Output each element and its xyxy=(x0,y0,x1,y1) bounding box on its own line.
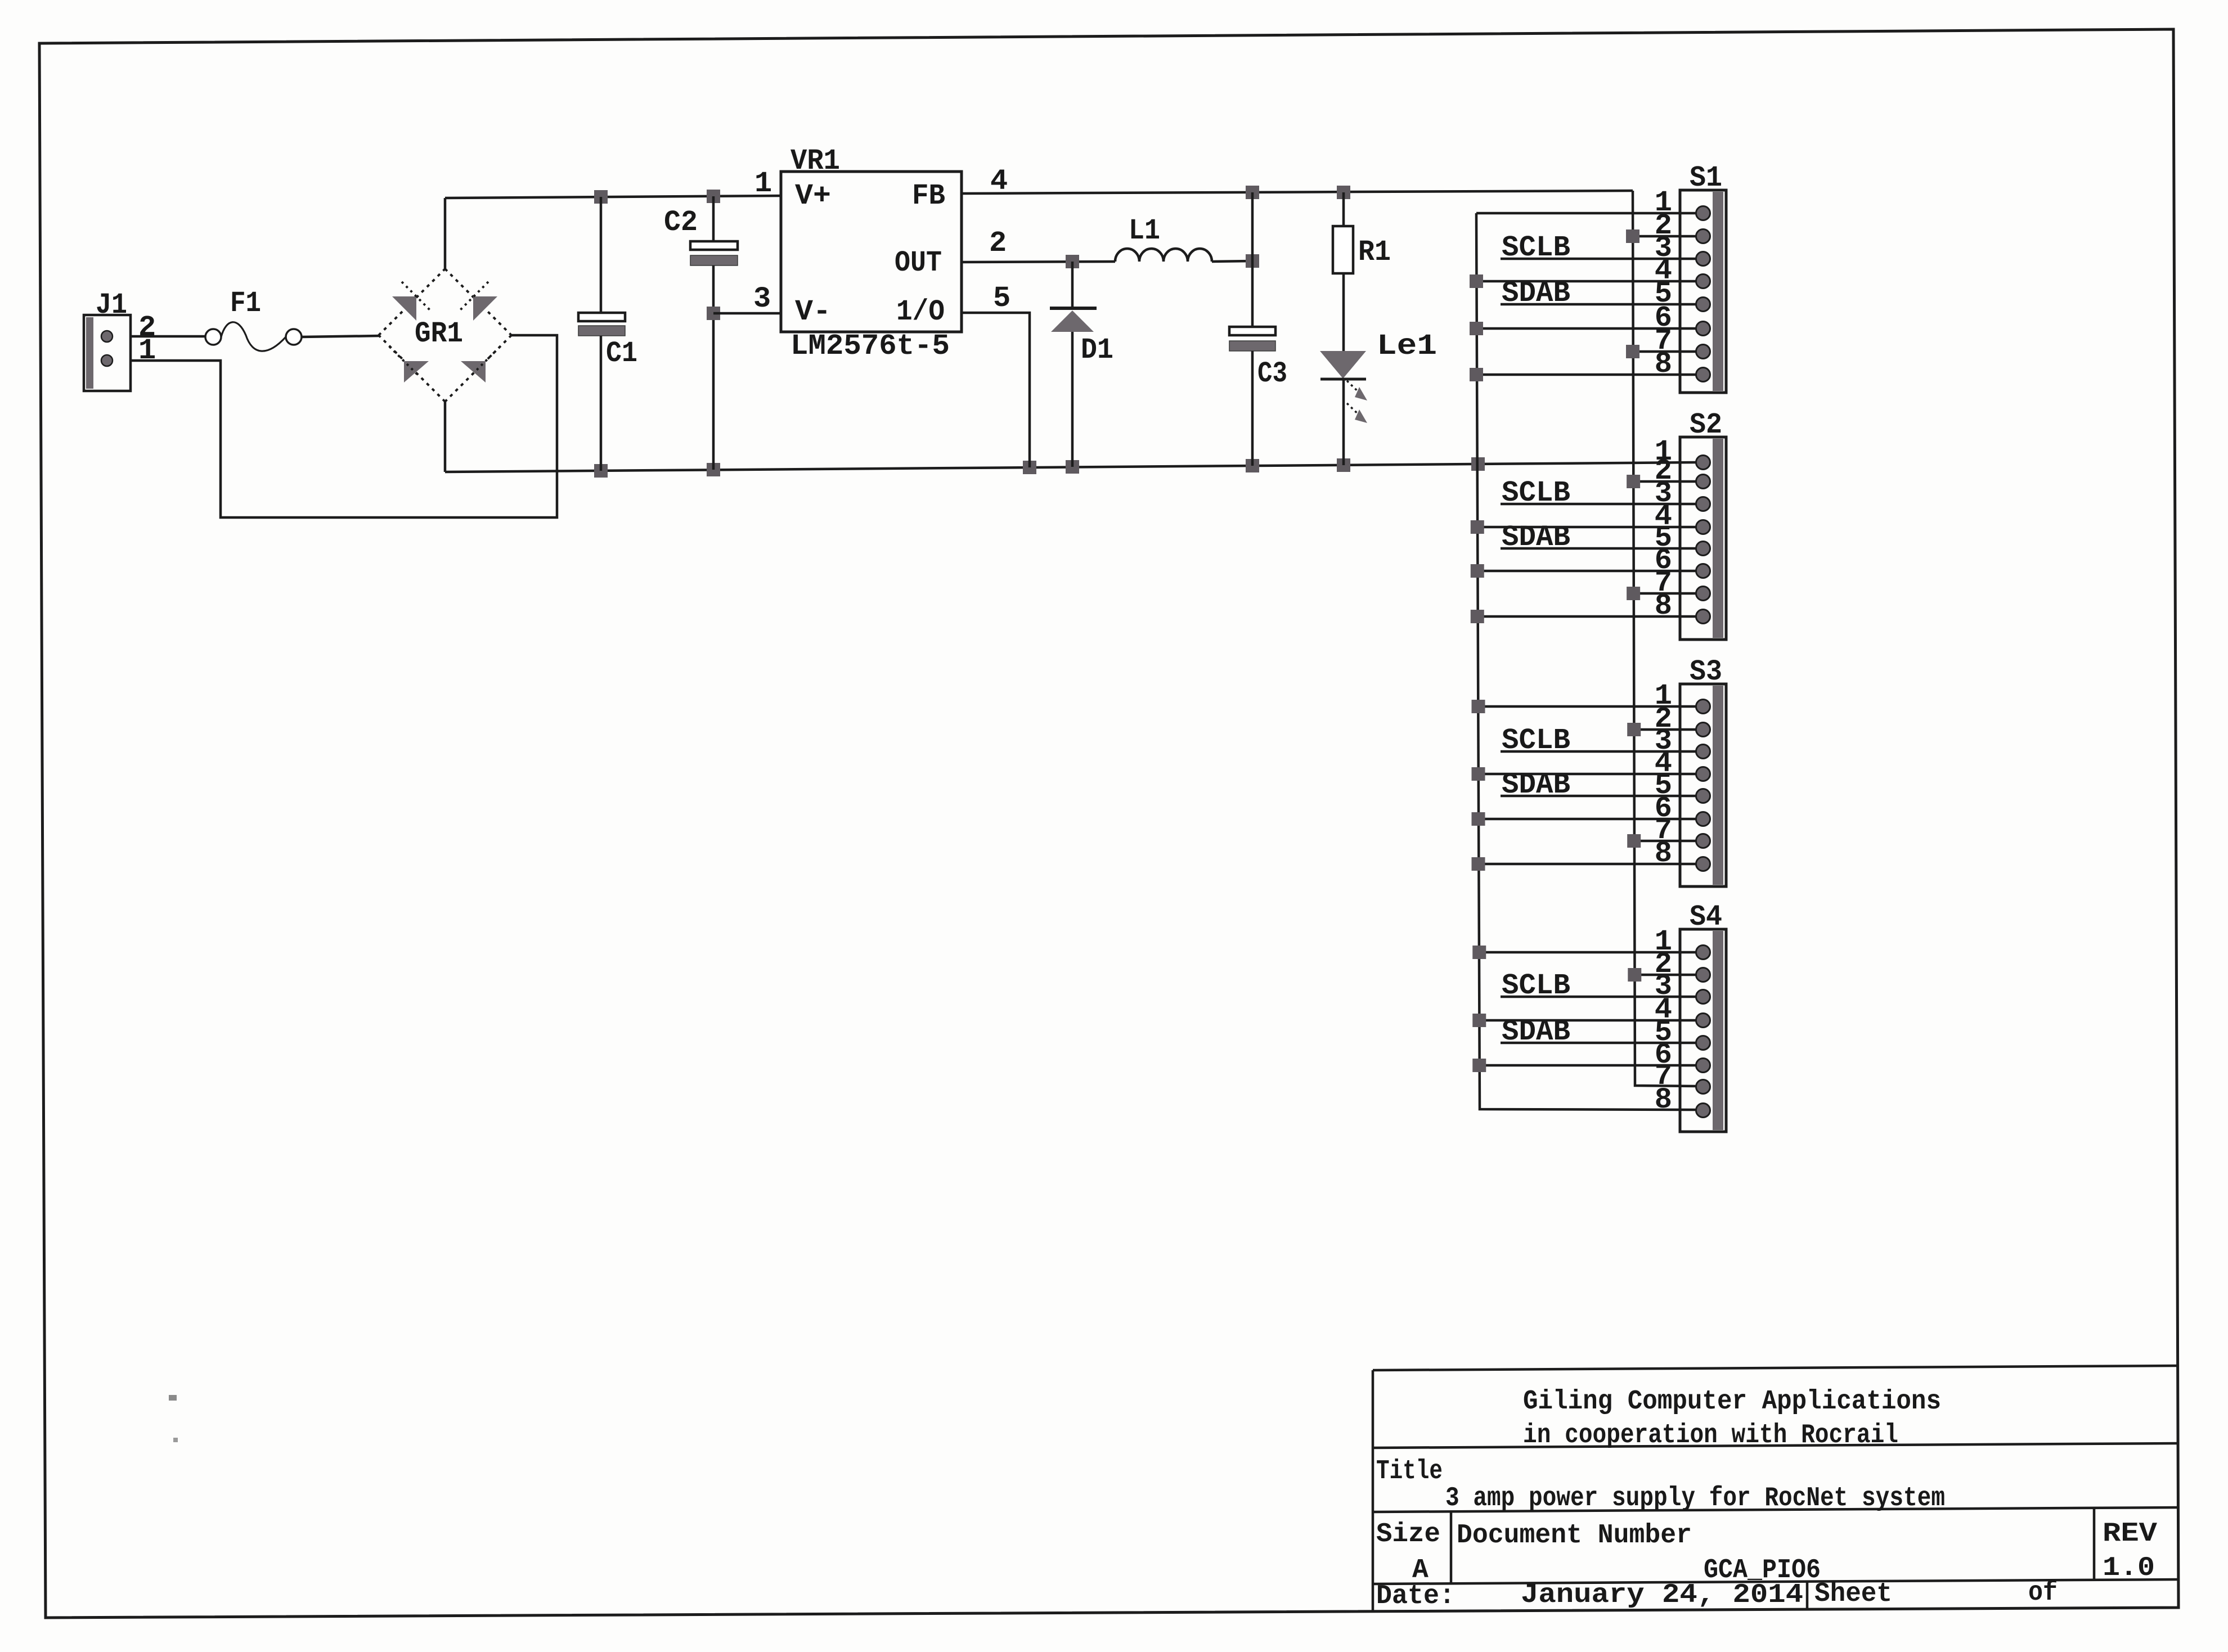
svg-text:Sheet: Sheet xyxy=(1814,1579,1892,1609)
connector S1 pin 7 contact xyxy=(1696,345,1710,359)
svg-text:January 24, 2014: January 24, 2014 xyxy=(1521,1580,1803,1610)
connector S4 pin 8 contact xyxy=(1696,1104,1710,1118)
junction GND bus at S3 pin8 xyxy=(1472,857,1485,871)
connector S2 pin 2 contact xyxy=(1696,475,1710,489)
junction bottom rail at Le1 xyxy=(1337,458,1350,472)
wire S2 pin4 from GND bus xyxy=(1477,526,1697,529)
svg-text:C2: C2 xyxy=(664,206,698,239)
svg-text:1/O: 1/O xyxy=(896,295,945,328)
connector S4 pin 2 contact xyxy=(1696,968,1710,982)
diode D1 triangle xyxy=(1051,310,1094,332)
junction GND bus at S1 pin4 xyxy=(1470,274,1483,288)
wire +5V bus (FB rail corner down to S4 pin7) xyxy=(1633,191,1697,1086)
svg-text:8: 8 xyxy=(1655,1083,1672,1117)
title block divider under title xyxy=(1373,1507,2178,1512)
svg-text:R1: R1 xyxy=(1358,236,1391,269)
wire S3 pin7 from +5V bus xyxy=(1634,840,1697,843)
svg-text:1.0: 1.0 xyxy=(2103,1553,2155,1583)
wire FB rail (VR1 FB to +5V bus corner) xyxy=(962,191,1633,193)
junction GND bus at S1 pin8 xyxy=(1470,368,1483,381)
J1 pin 1 number label xyxy=(138,334,156,367)
inductor L1 label xyxy=(1129,214,1160,247)
connector S3 body xyxy=(1680,684,1726,886)
wire S3 pin2 from +5V bus xyxy=(1634,728,1697,731)
connector S3 pin 2 contact xyxy=(1696,723,1710,737)
wire VR1 OUT to L1 xyxy=(962,262,1115,262)
svg-text:SCLB: SCLB xyxy=(1502,476,1570,510)
connector S1 pin 8 number xyxy=(1655,348,1672,381)
wire net SDAB to S4 pin5 xyxy=(1501,1042,1697,1045)
junction GND bus at S1 pin6 xyxy=(1470,322,1483,335)
connector S3 pin 3 contact xyxy=(1696,745,1710,759)
wire net SDAB to S2 pin5 xyxy=(1501,547,1697,550)
bridge GR1 diode top-right xyxy=(459,282,497,321)
diode D1 top lead xyxy=(1071,262,1074,310)
svg-text:L1: L1 xyxy=(1129,214,1160,247)
wire net SDAB to S1 pin5 xyxy=(1501,303,1697,306)
net label SDAB at S1 xyxy=(1502,277,1570,310)
connector S2 pin 6 contact xyxy=(1696,564,1710,578)
connector J1 label xyxy=(96,289,127,322)
connector S4 pin 2 number xyxy=(1655,948,1672,981)
connector S1 pin 2 number xyxy=(1655,209,1672,242)
fuse F1 element xyxy=(221,322,286,351)
junction OUT wire at D1 xyxy=(1066,255,1079,268)
wire GR1 minus output to bottom rail xyxy=(444,402,447,472)
bridge GR1 diode top-left xyxy=(392,282,431,321)
regulator VR1 box xyxy=(781,172,962,332)
connector S4 pin 3 contact xyxy=(1696,990,1710,1004)
svg-text:Size: Size xyxy=(1376,1519,1440,1550)
connector S2 pin 7 number xyxy=(1655,566,1672,600)
connector S1 pin 6 number xyxy=(1655,301,1672,335)
connector S2 pin 5 contact xyxy=(1696,542,1710,556)
VR1 pin 4 number label xyxy=(990,165,1008,198)
svg-text:C3: C3 xyxy=(1257,357,1287,390)
wire top rail Vin (GR1 to VR1 V+) xyxy=(445,196,781,198)
title block date value xyxy=(1521,1580,1803,1610)
connector S1 pin 3 contact xyxy=(1696,252,1710,266)
regulator VR1 value label LM2576t-5 xyxy=(790,330,950,363)
connector S2 pin 4 contact xyxy=(1696,520,1710,534)
bridge GR1 diamond edge top-left xyxy=(379,269,445,335)
junction output node at L1 xyxy=(1246,254,1259,268)
connector S3 pin 6 contact xyxy=(1696,812,1710,826)
capacitor C3 bottom plate xyxy=(1229,341,1275,351)
wire net SCLB to S1 pin3 xyxy=(1501,258,1697,260)
wire J1 pin1 loop to GR1 AC input xyxy=(129,335,557,517)
connector S3 pin 4 number xyxy=(1655,747,1672,780)
fuse F1 right terminal xyxy=(286,329,302,345)
connector S1 pin 8 contact xyxy=(1696,368,1710,382)
svg-text:V-: V- xyxy=(795,295,831,328)
connector S2 pin 8 contact xyxy=(1696,610,1710,624)
title block outer frame xyxy=(1373,1366,2178,1612)
wire S1 pin4 from GND bus xyxy=(1476,280,1697,283)
junction bottom rail at D1 xyxy=(1066,460,1079,474)
svg-text:F1: F1 xyxy=(230,287,261,320)
title block Size label xyxy=(1376,1519,1440,1550)
resistor R1 top lead xyxy=(1342,192,1345,226)
connector S3 pin 5 number xyxy=(1655,769,1672,802)
title block rev value 1.0 xyxy=(2103,1553,2155,1583)
resistor R1 label xyxy=(1358,236,1391,269)
junction C2 at VR1 V- wire xyxy=(707,307,720,320)
capacitor C1 bottom lead xyxy=(600,336,603,471)
connector J1 body xyxy=(84,315,131,391)
title block company line 2 xyxy=(1523,1420,1898,1451)
svg-text:of: of xyxy=(2028,1578,2058,1608)
junction +5V bus at S3 pin7 xyxy=(1627,834,1641,848)
wire S2 pin2 from +5V bus xyxy=(1633,480,1697,483)
svg-text:SCLB: SCLB xyxy=(1502,724,1570,757)
connector S2 pin 5 number xyxy=(1655,521,1672,555)
LED Le1 bottom lead xyxy=(1342,379,1345,465)
capacitor C1 bottom plate xyxy=(578,326,625,336)
connector S2 body xyxy=(1680,437,1726,640)
wire S1 pin6 from GND bus xyxy=(1476,327,1697,330)
svg-text:S2: S2 xyxy=(1690,408,1722,442)
connector S4 pin 7 contact xyxy=(1696,1080,1710,1094)
title block REV label xyxy=(2103,1519,2157,1549)
junction +5V bus at S3 pin2 xyxy=(1627,723,1641,736)
fuse F1 left terminal xyxy=(205,329,221,345)
connector S1 pin 1 contact xyxy=(1696,206,1710,220)
junction FB rail at C3 column xyxy=(1246,186,1259,199)
junction FB rail at R1 xyxy=(1337,186,1350,199)
wire S3 pin4 from GND bus xyxy=(1479,773,1697,776)
wire VR1 I/O down to GND rail xyxy=(962,313,1030,467)
title block REV box divider xyxy=(2093,1508,2096,1580)
net label SCLB at S2 xyxy=(1502,476,1570,510)
junction bottom rail at GND bus xyxy=(1471,457,1485,471)
connector S2 pin 3 number xyxy=(1655,477,1672,510)
svg-text:VR1: VR1 xyxy=(790,145,840,178)
connector S1 pin 2 contact xyxy=(1696,229,1710,244)
wire S1 pin1 from GND bus corner xyxy=(1476,212,1697,215)
svg-text:SCLB: SCLB xyxy=(1502,969,1570,1002)
connector S1 pin 3 number xyxy=(1655,232,1672,265)
wire FB rail down to output node xyxy=(1251,192,1254,261)
VR1 pin 1 number label xyxy=(754,167,772,200)
capacitor C3 top plate xyxy=(1229,327,1275,335)
svg-text:Giling Computer Applications: Giling Computer Applications xyxy=(1523,1387,1941,1417)
connector S4 body xyxy=(1680,929,1726,1132)
VR1 pin 5 number label xyxy=(993,282,1010,315)
bridge GR1 diamond edge bottom-right xyxy=(445,335,511,402)
net label SDAB at S2 xyxy=(1502,521,1570,554)
svg-text:REV: REV xyxy=(2103,1519,2157,1549)
junction GND bus at S4 pin6 xyxy=(1472,1059,1486,1072)
junction GND bus at S2 pin8 xyxy=(1471,610,1484,623)
connector S3 pin 8 number xyxy=(1655,837,1672,870)
capacitor C1 top plate xyxy=(578,313,625,321)
wire GND bus (S1 pin1 corner down to S4 pin8) xyxy=(1476,213,1697,1110)
capacitor C2 bottom lead xyxy=(712,265,715,470)
fuse F1 label xyxy=(230,287,261,320)
connector S4 pin 3 number xyxy=(1655,970,1672,1003)
wire S2 pin8 from GND bus xyxy=(1477,615,1697,618)
regulator VR1 pin name OUT xyxy=(895,246,942,280)
wire S4 pin2 from +5V bus xyxy=(1634,974,1697,976)
connector S3 pin 7 contact xyxy=(1696,834,1710,848)
svg-text:V+: V+ xyxy=(795,179,831,213)
connector S1 label xyxy=(1690,161,1722,195)
connector S4 pin 7 number xyxy=(1655,1060,1672,1093)
wire S3 pin8 from GND bus xyxy=(1479,863,1697,866)
connector S4 label xyxy=(1690,901,1722,934)
junction +5V bus at S4 pin2 xyxy=(1628,968,1641,982)
svg-text:1: 1 xyxy=(138,334,156,367)
diode D1 bottom lead xyxy=(1071,332,1074,467)
junction top rail at C1 xyxy=(594,190,608,204)
wire C2 junction to VR1 V- xyxy=(713,312,781,315)
title block Title label xyxy=(1376,1456,1443,1487)
regulator VR1 pin name V- xyxy=(795,295,831,328)
bridge GR1 diode bottom-left xyxy=(389,346,429,382)
VR1 pin 3 number label xyxy=(753,282,771,316)
connector S2 pin 1 number xyxy=(1655,435,1672,469)
junction bottom rail at C1 xyxy=(594,464,608,478)
connector S2 pin 2 number xyxy=(1655,454,1672,488)
svg-text:in cooperation with Rocrail: in cooperation with Rocrail xyxy=(1523,1420,1898,1451)
bridge GR1 diode bottom-right xyxy=(461,346,500,382)
capacitor C3 top lead xyxy=(1251,261,1254,327)
connector S1 pin 6 contact xyxy=(1696,322,1710,336)
junction GND bus at S4 pin1 xyxy=(1472,946,1486,959)
wire S4 pin6 from GND bus xyxy=(1479,1064,1697,1067)
capacitor C2 label xyxy=(664,206,698,239)
title block size value A xyxy=(1412,1555,1429,1586)
wire S2 pin7 from +5V bus xyxy=(1633,592,1697,595)
connector S4 pin 8 number xyxy=(1655,1083,1672,1117)
wire J1 pin2 to F1 xyxy=(129,335,205,338)
VR1 pin 2 number label xyxy=(989,227,1007,260)
connector S2 pin 3 contact xyxy=(1696,497,1710,511)
wire net SCLB to S3 pin3 xyxy=(1501,750,1697,753)
connector S3 pin 8 contact xyxy=(1696,857,1710,871)
capacitor C3 bottom lead xyxy=(1251,351,1254,466)
wire net SCLB to S4 pin3 xyxy=(1501,996,1697,998)
connector J1 pin 2 xyxy=(101,331,113,342)
junction GND bus at S3 pin6 xyxy=(1472,812,1485,826)
junction +5V bus at S1 pin2 xyxy=(1626,229,1639,243)
regulator VR1 pin name FB xyxy=(912,179,945,213)
svg-text:S1: S1 xyxy=(1690,161,1722,195)
wire F1 to GR1 AC input xyxy=(302,336,379,337)
diode D1 label xyxy=(1081,334,1113,367)
connector S1 body xyxy=(1680,190,1726,393)
net label SCLB at S1 xyxy=(1502,231,1570,264)
connector S4 pin 1 number xyxy=(1655,925,1672,958)
junction +5V bus at S1 pin7 xyxy=(1626,345,1639,358)
connector S3 pin 3 number xyxy=(1655,724,1672,758)
connector S2 pin 8 number xyxy=(1655,589,1672,623)
capacitor C2 top lead xyxy=(712,196,715,241)
svg-text:Document Number: Document Number xyxy=(1457,1520,1692,1551)
bridge GR1 label xyxy=(415,317,463,350)
LED Le1 cathode bar xyxy=(1320,378,1366,381)
svg-text:LM2576t-5: LM2576t-5 xyxy=(790,330,950,363)
title block title text xyxy=(1445,1483,1945,1514)
wire S4 pin1 from GND bus xyxy=(1479,951,1697,954)
wire S4 pin4 from GND bus xyxy=(1479,1019,1697,1022)
capacitor C3 label xyxy=(1257,357,1287,390)
resistor R1 body xyxy=(1333,226,1353,273)
connector S3 pin 4 contact xyxy=(1696,767,1710,781)
connector S2 pin 1 contact xyxy=(1696,456,1710,470)
svg-text:Le1: Le1 xyxy=(1377,330,1437,363)
junction GND bus at S4 pin4 xyxy=(1472,1014,1486,1027)
connector S1 pin 1 number xyxy=(1655,186,1672,219)
title block divider under company xyxy=(1373,1443,2178,1448)
connector S4 pin 5 contact xyxy=(1696,1036,1710,1050)
wire S3 pin1 from GND bus xyxy=(1479,705,1697,708)
junction top rail at C2 xyxy=(707,190,720,203)
wire net SDAB to S3 pin5 xyxy=(1501,795,1697,798)
connector S3 pin 7 number xyxy=(1655,814,1672,847)
junction bottom rail at C3 xyxy=(1246,459,1259,472)
connector S3 pin 5 contact xyxy=(1696,789,1710,803)
connector S3 pin 2 number xyxy=(1655,703,1672,736)
junction GND bus at S2 pin4 xyxy=(1471,520,1484,534)
connector S4 pin 6 contact xyxy=(1696,1059,1710,1073)
svg-text:Date:: Date: xyxy=(1376,1581,1455,1612)
LED Le1 label xyxy=(1377,330,1437,363)
connector S1 pin 5 contact xyxy=(1696,298,1710,312)
title block of label xyxy=(2028,1578,2058,1608)
net label SDAB at S3 xyxy=(1502,768,1570,802)
junction GND bus at S3 pin1 xyxy=(1472,700,1485,713)
net label SCLB at S4 xyxy=(1502,969,1570,1002)
connector S4 pin 4 number xyxy=(1655,993,1672,1027)
connector S4 pin 6 number xyxy=(1655,1038,1672,1072)
junction bottom rail at C2 xyxy=(707,463,720,476)
J1 pin 2 number label xyxy=(138,311,156,344)
svg-text:5: 5 xyxy=(993,282,1010,315)
svg-text:3: 3 xyxy=(753,282,771,316)
capacitor C1 label xyxy=(606,337,637,370)
net label SDAB at S4 xyxy=(1502,1015,1570,1048)
junction GND bus at S2 pin6 xyxy=(1471,564,1484,578)
connector S1 pin 7 number xyxy=(1655,325,1672,358)
svg-text:D1: D1 xyxy=(1081,334,1113,367)
LED Le1 triangle xyxy=(1320,351,1366,379)
wire L1 to output node xyxy=(1212,261,1252,262)
svg-text:GR1: GR1 xyxy=(415,317,463,350)
junction +5V bus at S2 pin7 xyxy=(1627,587,1640,600)
svg-text:2: 2 xyxy=(989,227,1007,260)
junction +5V bus at S2 pin2 xyxy=(1627,475,1640,488)
svg-text:3 amp power supply for RocNet: 3 amp power supply for RocNet system xyxy=(1445,1483,1945,1514)
connector J1 pin 1 xyxy=(101,355,113,366)
connector S3 pin 1 number xyxy=(1655,679,1672,713)
inductor L1 coil xyxy=(1115,249,1212,262)
connector S4 pin 4 contact xyxy=(1696,1014,1710,1028)
wire S2 pin6 from GND bus xyxy=(1477,570,1697,573)
title block size box divider xyxy=(1450,1512,1453,1584)
capacitor C2 bottom plate xyxy=(690,255,738,265)
connector S4 pin 1 contact xyxy=(1696,946,1710,960)
connector S3 pin 1 contact xyxy=(1696,700,1710,714)
title block divider above date row xyxy=(1373,1579,2178,1584)
junction GND bus at S3 pin4 xyxy=(1472,767,1485,781)
regulator VR1 pin name V+ xyxy=(795,179,831,213)
title block Date label xyxy=(1376,1581,1455,1612)
title block Document Number label xyxy=(1457,1520,1692,1551)
connector S2 pin 7 contact xyxy=(1696,587,1710,601)
svg-text:SCLB: SCLB xyxy=(1502,231,1570,264)
svg-text:S4: S4 xyxy=(1690,901,1722,934)
svg-text:FB: FB xyxy=(912,179,945,213)
regulator VR1 pin name 1/0 xyxy=(896,295,945,328)
bridge GR1 diamond edge top-right xyxy=(445,269,511,335)
scan speck 2 xyxy=(173,1438,178,1442)
svg-text:C1: C1 xyxy=(606,337,637,370)
svg-text:OUT: OUT xyxy=(895,246,942,280)
title block company line 1 xyxy=(1523,1387,1941,1417)
title block date/sheet divider xyxy=(1806,1582,1809,1609)
wire bottom rail GND (GR1 to S2 pin1) xyxy=(445,462,1697,472)
wire S1 pin7 from +5V bus xyxy=(1633,350,1697,353)
svg-text:J1: J1 xyxy=(96,289,127,322)
svg-text:Title: Title xyxy=(1376,1456,1443,1487)
wire S1 pin2 from +5V bus xyxy=(1633,235,1697,238)
junction bottom rail at VR1 I/O xyxy=(1023,461,1036,474)
connector S3 label xyxy=(1690,655,1722,688)
resistor R1 bottom lead xyxy=(1342,273,1345,351)
net label SCLB at S3 xyxy=(1502,724,1570,757)
svg-text:S3: S3 xyxy=(1690,655,1722,688)
bridge GR1 diamond edge bottom-left xyxy=(379,335,445,402)
LED Le1 emission arrow 1 xyxy=(1347,381,1367,400)
wire net SCLB to S2 pin3 xyxy=(1501,503,1697,506)
connector S2 pin 6 number xyxy=(1655,544,1672,577)
connector S2 pin 4 number xyxy=(1655,500,1672,533)
capacitor C2 top plate xyxy=(690,241,738,250)
connector S2 label xyxy=(1690,408,1722,442)
LED Le1 emission arrow 2 xyxy=(1347,403,1367,423)
connector S1 pin 5 number xyxy=(1655,277,1672,310)
connector S3 pin 6 number xyxy=(1655,792,1672,825)
svg-text:1: 1 xyxy=(754,167,772,200)
connector S1 pin 4 number xyxy=(1655,254,1672,287)
wire S3 pin6 from GND bus xyxy=(1479,818,1697,821)
capacitor C1 top lead xyxy=(600,197,603,313)
connector S4 pin 5 number xyxy=(1655,1016,1672,1049)
connector S1 pin 4 contact xyxy=(1696,274,1710,289)
regulator VR1 ref label xyxy=(790,145,840,178)
scan speck 1 xyxy=(169,1395,177,1401)
wire GR1 plus output to top rail xyxy=(444,198,447,269)
title block document number GCA_PI06 xyxy=(1704,1555,1821,1586)
wire S1 pin8 from GND bus xyxy=(1476,373,1697,376)
diode D1 cathode bar xyxy=(1050,307,1097,310)
title block Sheet label xyxy=(1814,1579,1892,1609)
